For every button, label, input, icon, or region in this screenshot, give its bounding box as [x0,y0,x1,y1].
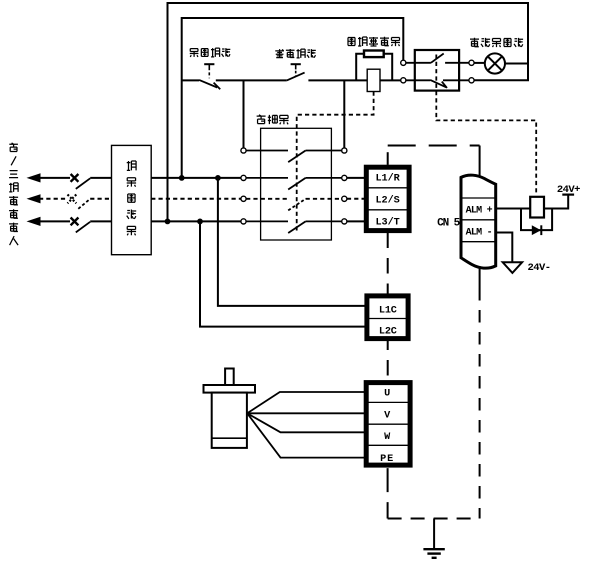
wire coil to alarm box contact [380,79,401,81]
power line 1 arrow [27,173,41,182]
cable L3T block down to motor block (long dash) [387,233,389,380]
terminal block UVWPE [366,383,410,466]
svg-text:CN 5: CN 5 [437,218,461,230]
CN5 shield down wire [479,266,481,288]
mechanical linkage alarm box to relay (dashed) [436,55,536,195]
terminal ring alarm box bottom-left [401,78,406,83]
power line 3 to filter [90,220,111,222]
terminal block L1C/L2C [367,296,408,339]
svg-text:L1C: L1C [379,305,397,316]
ground bus (long dash) [388,518,480,520]
CN5 divider 1 [461,197,496,199]
wire contactor row3 to L2/S (dashed) [347,198,365,200]
contactor row 1 right terminal ring [342,148,347,153]
ground symbol [423,548,444,550]
block UVWPE divider 1 [366,401,410,403]
wire relay to 24V+ [544,195,568,208]
surge absorber RC box [364,51,384,58]
24V+ terminal bar [562,194,574,196]
run button actuator [291,63,301,65]
wire contactor row2 to L1/R [347,177,365,179]
motor wire U [247,392,366,413]
label power input 单／三相电源输入 [9,143,18,245]
power line 1 to filter [90,177,111,179]
contactor row 1 left wire [246,150,288,152]
contactor row 4 left terminal ring [241,219,246,224]
cable block to CN5 (long dash) [388,145,480,147]
wire line3 down to L2C [200,221,366,326]
diode bypass loop [521,209,552,231]
svg-text:U: U [384,389,390,400]
power line 3 X mark [71,218,79,226]
wire line1 down to L1C [218,178,366,306]
motor wire W [247,413,366,432]
svg-text:L2/S: L2/S [375,194,399,206]
power line 1 breaker blade [76,178,90,189]
motor body [212,393,247,448]
svg-text:24V+: 24V+ [557,184,580,196]
wire contact A to lamp [474,62,485,64]
block L1C/L2C divider [367,318,408,320]
power line 3 arrow [27,217,41,226]
ground stem [433,519,435,550]
wire contactor row4 to L3/T [347,220,365,222]
svg-text:V: V [384,410,391,421]
svg-text:L2C: L2C [379,327,397,338]
terminal block divider 2 [366,209,409,211]
motor wire V [247,412,366,414]
terminal ring alarm box bottom-right [469,78,474,83]
power line 3 filter to contactor [151,220,241,222]
wire contact B to right rail [474,79,529,81]
junction dot line3/L2C feed [197,219,203,225]
contactor row 1 left terminal ring [241,148,246,153]
run button NO contact blade [287,73,305,81]
alarm contact A (NO) [406,62,431,64]
terminal block divider 1 [366,187,409,189]
noise filter box [112,145,152,254]
contactor row 3 blade (dashed) [288,199,305,211]
wire control to contactor row1 left [243,80,245,147]
power line 1 lead [39,177,70,179]
wire CN5 top pin [479,146,481,182]
diode D1 [532,225,541,235]
alarm contact box [415,50,459,91]
surge absorber parallel loop [356,54,392,81]
contactor row 3 left wire (dashed) [246,198,288,200]
motor shaft stub [225,369,234,386]
label noise filter 噪声滤波器 [127,161,136,235]
CN5 shield down wire (long dash) [479,288,481,519]
CN5 divider 3 [461,241,496,243]
power line 1 filter to contactor [151,177,241,179]
power line 2 lead (dashed) [39,198,67,200]
CN5 connector outline [461,175,496,268]
stop button actuator [204,63,214,65]
svg-text:24V-: 24V- [527,262,550,274]
terminal block L1R-L3T [366,167,409,230]
alarm lamp [485,53,505,73]
svg-text:L1/R: L1/R [375,172,400,184]
PE down wire (long dash) [387,468,389,518]
svg-text:L3/T: L3/T [375,216,399,228]
wire outer return loop (top) [168,3,529,221]
terminal ring alarm box top-left [401,60,406,65]
label run button 运行按钮 [275,49,316,58]
wire ALM- down [496,233,513,262]
power line 2 X mark (dotted) [68,195,77,204]
contactor row 2 left terminal ring [241,175,246,180]
power line 2 filter to contactor (dashed) [151,198,241,200]
contactor row 4 right terminal ring [342,219,347,224]
junction dot line1/L1C feed [215,175,221,181]
contactor row 2 left wire [246,177,288,179]
terminal ring alarm box top-right [469,60,474,65]
CN5 divider 2 [461,219,496,221]
label contactor 接触器 [257,115,289,125]
24V- open triangle [503,262,522,273]
block UVWPE divider 2 [366,423,410,425]
junction dot line1/control feed [179,175,185,181]
contactor row 2 right wire [306,177,342,179]
contactor row 2 right terminal ring [342,175,347,180]
junction dot line3/return rail [165,219,171,225]
power line 3 lead [39,220,70,222]
svg-text:PE: PE [380,454,394,465]
contactor row 3 left terminal ring [241,196,246,201]
motor body bottom line [212,437,247,439]
label alarm lamp 报警指示灯 [470,38,523,47]
relay coil [530,197,544,218]
wire control line between buttons [216,79,287,81]
wire control to contactor row1 right [343,80,345,147]
contactor coil [367,69,380,91]
contactor row 2 blade [288,178,305,190]
wire block top pin [387,152,389,165]
power line 3 breaker blade [76,222,90,233]
contactor row 1 blade [288,151,305,163]
power line 2 to filter (dashed) [90,198,111,200]
motor flange [204,385,256,393]
contactor row 3 right wire (dashed) [306,198,342,200]
label surge absorber 浪涌吸收器 [348,37,400,46]
wire ALM+ to relay [496,208,531,210]
contactor row 1 right wire [306,150,342,152]
power line 1 X mark [71,174,79,182]
svg-text:W: W [384,432,391,443]
mechanical linkage coil to contactor (dashed) [297,92,374,232]
wire control line right segment [308,79,367,81]
wire control line left segment [182,79,199,81]
alarm contact B (NC) [406,79,430,81]
wire lamp to right rail [505,63,528,65]
contactor row 4 left wire [246,220,288,222]
wire inner feed to alarm box top [182,18,404,178]
contactor row 3 right terminal ring [342,196,347,201]
contactor row 4 right wire [306,220,342,222]
motor wire PE [247,413,366,457]
svg-text:ALM -: ALM - [466,228,492,239]
label stop button 停机按钮 [190,48,231,57]
block UVWPE divider 3 [366,444,410,446]
power line 2 arrow [27,194,41,203]
contactor row 4 blade [288,221,305,233]
contactor box [261,128,332,240]
stop button NC contact blade [199,80,217,88]
svg-text:ALM +: ALM + [466,206,493,217]
power line 2 breaker blade (dashed) [78,199,90,209]
